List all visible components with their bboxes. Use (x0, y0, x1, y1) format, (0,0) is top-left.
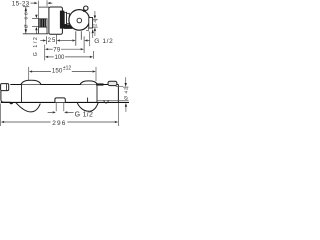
arrow up + tail (94, 28, 96, 31)
pipe below hatch (39, 27, 47, 33)
axis line right (97, 99, 128, 101)
svg-text:±12: ±12 (63, 66, 71, 72)
left dome upper (21, 80, 41, 84)
technical dimension drawing: thermostatic mixer, side view (top) and plan view (bottom) (0, 0, 130, 128)
left knob head (1, 84, 9, 91)
right dim: tail top (125, 77, 127, 83)
bar (56, 34, 58, 44)
small nub below body (left) (9, 103, 13, 105)
nub on top right (84, 6, 88, 10)
nipple to wall (89, 18, 93, 29)
dark nut on body top (right) (96, 83, 103, 85)
lever tick line (116, 85, 123, 87)
svg-text:79: 79 (53, 47, 61, 53)
tick below hatch (32, 26, 39, 28)
union hatch block (39, 19, 47, 27)
small semicircle under axis (right) (104, 101, 108, 103)
tick (123, 86, 128, 88)
svg-text:G 1/2: G 1/2 (75, 112, 93, 119)
ext bar x38.6 (38, 1, 40, 19)
main body (49, 7, 63, 34)
shoulder line to body (39, 6, 49, 8)
dim 100 row y56.9: arrow left (45, 56, 48, 58)
left bowl (16, 103, 41, 112)
knob circle (69, 10, 90, 31)
body right edge (117, 85, 119, 103)
right dim 24: tail (94, 11, 96, 16)
hatch stripes (40, 19, 45, 27)
arrow left tip x84.3 (84, 39, 87, 41)
hatch height dim: arrow down (35, 15, 37, 19)
svg-text:25: 25 (48, 38, 56, 44)
seam left (21, 85, 23, 103)
connector step rects (64, 12, 66, 24)
arrow down (94, 16, 96, 19)
line + arrow right (65, 56, 90, 58)
arrow down (125, 83, 127, 87)
dim arrow right (15-23) (30, 2, 34, 4)
tick above hatch (32, 18, 39, 20)
svg-text:Ø 42: Ø 42 (124, 87, 130, 100)
tick top (92, 18, 98, 20)
dim line + arrows (1, 121, 118, 123)
dim 150 +-12: ext line left (28, 67, 30, 80)
outlet stub lines below circle (76, 31, 82, 46)
tick top (23, 6, 29, 8)
tick bottom (92, 26, 98, 28)
inner circle (77, 18, 82, 23)
outlet tab (55, 98, 65, 102)
ext line x44.7 (44, 45, 46, 61)
outlet ext lines (56, 103, 64, 111)
short stub x87.6 (87, 98, 89, 103)
circle-right ext line (89, 32, 91, 47)
right knob lever (108, 81, 117, 85)
dark chin below circle (60, 24, 72, 29)
long bottom line (tick + pipe bottom) (23, 33, 49, 35)
arrow up + tail (125, 103, 127, 107)
296 dim: ext line left (0, 104, 2, 127)
G 1/2 leader arrow up (92, 29, 94, 33)
line + arrow right (61, 48, 81, 50)
ext line right (117, 103, 119, 126)
svg-text:296: 296 (52, 120, 66, 127)
outlet dim arrows (48, 111, 53, 113)
right bowl (77, 103, 98, 112)
dark band between body and knob (60, 11, 64, 29)
seam right (96, 85, 98, 103)
svg-text:G 1/2: G 1/2 (33, 37, 39, 56)
body bottom line (long) (1, 101, 129, 103)
left body end outline (1, 91, 11, 103)
arrow left (29, 70, 32, 72)
right dome upper (80, 81, 98, 85)
svg-text:150: 150 (52, 68, 63, 75)
ext line right (95, 67, 97, 81)
bar x93.4 (92, 51, 94, 59)
arrow down (25, 29, 27, 33)
arrow left + long tail (57, 39, 60, 41)
dim 79 row y49.2: arrow left (45, 48, 48, 50)
svg-text:24: 24 (92, 20, 98, 27)
shared bar x84.1 (83, 36, 85, 53)
left dim line (dia 68) (25, 7, 27, 34)
svg-text:100: 100 (55, 55, 65, 61)
arrow up + tail (35, 27, 37, 30)
dim 25 row y40.5: arrow right (40, 40, 43, 42)
svg-text:Ø 68: Ø 68 (24, 12, 30, 28)
line + arrow right (72, 71, 93, 73)
body top line (10, 84, 118, 86)
nub neck (83, 9, 85, 12)
knob cap line (6, 84, 8, 91)
dim arrow left (15-23 opposite) (47, 2, 50, 4)
elbow lines (86, 28, 88, 31)
second bar x47 (46, 0, 48, 6)
arrow up (25, 7, 27, 11)
arrow right tip x75.6 (72, 39, 75, 41)
bar (46, 36, 48, 44)
svg-text:G 1/2: G 1/2 (94, 38, 113, 45)
